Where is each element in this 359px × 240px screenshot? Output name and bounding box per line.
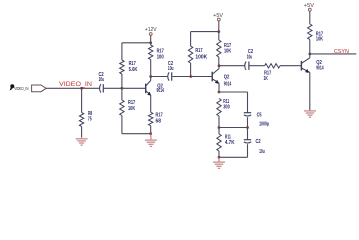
svg-text:9014: 9014 xyxy=(316,65,324,71)
wire R17 100K to base node xyxy=(190,63,192,77)
wire +5V rail left xyxy=(191,31,219,33)
transistor Q2 9014 stage3 xyxy=(301,58,323,73)
wire bottom rail stage1 xyxy=(122,133,151,135)
svg-text:10u: 10u xyxy=(259,149,265,155)
wire R11 4.7K upper lead xyxy=(218,128,220,135)
wire port to C2 xyxy=(46,87,100,89)
svg-text:+5V: +5V xyxy=(304,3,315,9)
wire collector to coupling cap xyxy=(151,76,168,78)
ground stage3 xyxy=(304,111,316,117)
capacitor C5 1000p xyxy=(244,113,269,128)
capacitor C2 10u emitter bypass xyxy=(244,139,265,155)
svg-text:100: 100 xyxy=(157,54,164,60)
svg-text:10u: 10u xyxy=(247,55,253,61)
transistor Q2 9014 stage1 xyxy=(146,81,164,96)
resistor R17 10K stage1 xyxy=(120,100,136,116)
svg-text:10K: 10K xyxy=(224,49,231,55)
resistor R17 1K xyxy=(264,64,281,82)
wire R17 10K to collector stage2 xyxy=(218,57,220,66)
node collector stage2 xyxy=(218,64,221,67)
svg-text:4.7K: 4.7K xyxy=(225,140,235,146)
node base bias junction stage1 xyxy=(121,87,124,90)
ground stage1 xyxy=(145,134,157,147)
wire emitter stage3 to ground xyxy=(309,72,311,110)
wire C5 lower lead xyxy=(247,117,249,127)
wire coupling cap to stage2 base xyxy=(172,76,212,78)
ground under R8 xyxy=(76,137,88,145)
svg-text:300: 300 xyxy=(223,104,230,110)
svg-text:100K: 100K xyxy=(195,55,207,61)
svg-text:10K: 10K xyxy=(128,106,135,112)
wire C2 bottom lower lead xyxy=(247,144,249,157)
svg-text:10u: 10u xyxy=(168,66,174,72)
resistor R8 75 xyxy=(79,111,92,127)
resistor R17 10K stage3 xyxy=(308,24,324,43)
node bottom rail stage2 xyxy=(218,156,221,159)
resistor R17 10K stage2 xyxy=(217,40,232,57)
wire R17 10K to collector node stage3 xyxy=(309,40,311,54)
svg-text:68: 68 xyxy=(156,119,162,125)
wire collector stage2 to cap xyxy=(219,65,245,67)
wire C2 bottom upper lead xyxy=(247,128,249,140)
wire CSYN output xyxy=(310,53,357,55)
wire collector stub stage3 xyxy=(309,54,311,58)
power +5V stage3 xyxy=(304,3,315,11)
wire R11 300 to mid node xyxy=(218,116,220,128)
wire +5V stem stage3 xyxy=(309,11,311,24)
wire R17 1K to stage3 base xyxy=(280,65,301,67)
wire mid rail to cap branch xyxy=(219,127,248,129)
wire R17 100 to collector xyxy=(150,60,152,77)
wire collector stub stage2 xyxy=(218,66,220,69)
svg-text:10K: 10K xyxy=(316,37,323,43)
port VIDEO_IN xyxy=(32,85,46,92)
resistor R11 300 xyxy=(217,99,230,117)
ground stage2 xyxy=(213,157,225,168)
wire cap to R17 1K xyxy=(250,65,265,67)
resistor R17 5.6K xyxy=(120,60,138,74)
wire rail to R17 100K xyxy=(190,32,192,46)
wire +5V stem stage2 xyxy=(218,21,220,32)
wire R8 top lead xyxy=(81,88,83,112)
wire emitter stage2 xyxy=(218,83,220,92)
wire R11 4.7K to bottom rail xyxy=(218,151,220,157)
node +12V rail junction xyxy=(149,41,152,44)
svg-text:Q2: Q2 xyxy=(224,75,230,81)
svg-text:R17: R17 xyxy=(195,48,202,54)
wire +12V to R17 100 xyxy=(150,43,152,45)
wire emitter branch to C5 xyxy=(219,91,248,93)
svg-text:10u: 10u xyxy=(99,77,105,83)
node mid divider xyxy=(218,126,221,129)
svg-text:C2: C2 xyxy=(256,139,261,145)
wire +12V rail left xyxy=(122,42,151,44)
svg-text:VIDEO_IN: VIDEO_IN xyxy=(14,86,28,91)
svg-text:+5V: +5V xyxy=(213,13,223,19)
resistor R11 4.7K xyxy=(217,134,235,151)
node collector stage1 xyxy=(149,75,152,78)
wire bias chain upper lead xyxy=(121,43,123,60)
wire emitter stage1 xyxy=(150,95,152,112)
resistor R17 68 xyxy=(149,112,163,125)
wire C2 to Q2 base (stage1) xyxy=(104,87,146,89)
svg-text:VIDEO_IN: VIDEO_IN xyxy=(59,82,92,88)
capacitor C2 10u coupling xyxy=(168,61,174,81)
wire R17 10K to bottom rail xyxy=(121,116,123,134)
wire R17 5.6K to base node xyxy=(121,74,123,88)
wire emitter resistor to ground node xyxy=(150,126,152,134)
ink mark top-left of port label xyxy=(10,84,15,90)
node cap branch mid xyxy=(246,126,249,129)
svg-text:5.6K: 5.6K xyxy=(129,67,138,73)
resistor R17 100K xyxy=(188,46,207,63)
svg-text:75: 75 xyxy=(88,116,92,122)
svg-text:9014: 9014 xyxy=(157,88,165,94)
svg-text:1K: 1K xyxy=(264,76,269,82)
node VIDEO_IN / R8 junction xyxy=(80,87,83,90)
node CSYN xyxy=(308,53,311,56)
svg-text:C5: C5 xyxy=(257,113,262,119)
svg-text:+12V: +12V xyxy=(145,27,157,33)
wire +5V to R17 10K stage2 xyxy=(218,32,220,40)
wire base node to R17 10K xyxy=(121,88,123,100)
svg-text:1000p: 1000p xyxy=(259,122,269,128)
node +5V rail stage2 xyxy=(217,30,220,33)
power +5V stage2 xyxy=(213,13,223,21)
power +12V xyxy=(145,27,157,35)
capacitor C2 10u coupling 2 xyxy=(245,49,254,70)
resistor R17 100 xyxy=(149,45,164,60)
wire bottom rail stage2 xyxy=(219,156,248,158)
transistor Q2 9014 stage2 xyxy=(212,69,231,88)
node base stage2 xyxy=(190,75,193,78)
capacitor C2 10u input xyxy=(99,72,105,92)
wire R8 to ground xyxy=(81,127,83,138)
node ground junction stage1 xyxy=(149,132,152,135)
wire C5 upper lead xyxy=(247,92,249,113)
wire +12V stem xyxy=(150,35,152,42)
svg-text:9014: 9014 xyxy=(224,82,232,88)
node emitter / C5 branch xyxy=(218,91,221,94)
wire collector stub stage1 xyxy=(150,77,152,81)
